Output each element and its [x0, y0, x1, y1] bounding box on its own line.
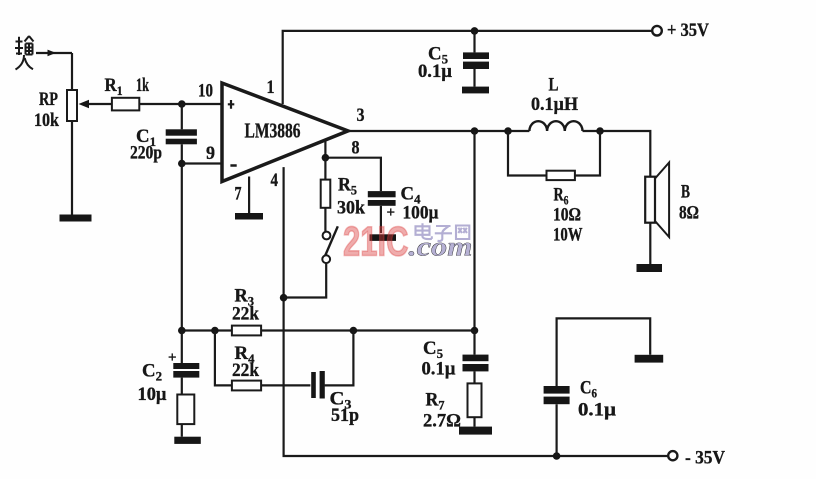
capacitor C6: [544, 386, 570, 394]
svg-text:C6: C6: [580, 378, 597, 401]
svg-text:22k: 22k: [232, 360, 259, 381]
resistor R1: [139, 103, 222, 105]
node junction input: [178, 100, 186, 108]
input label 输入: [15, 36, 34, 70]
svg-text:4: 4: [271, 170, 279, 191]
op-amp U1 LM3886: [222, 83, 348, 182]
svg-text:.com: .com: [409, 232, 473, 262]
node junction pin9: [178, 160, 186, 168]
svg-text:R7: R7: [426, 390, 445, 413]
watermark 电子网: [416, 223, 470, 241]
svg-text:21IC: 21IC: [343, 217, 409, 264]
wire output down to zobel/feedback: [473, 131, 475, 331]
svg-text:RP: RP: [39, 89, 58, 110]
resistor R5: [324, 158, 326, 180]
svg-text:LM3886: LM3886: [245, 119, 301, 143]
junction dot switch return: [280, 294, 288, 302]
svg-text:7: 7: [235, 184, 242, 205]
junction dot output/zobel: [471, 127, 479, 135]
ground (RP): [60, 215, 92, 222]
input arrow: [36, 52, 72, 54]
svg-text:R1: R1: [105, 75, 123, 98]
junction dot L right: [596, 127, 604, 135]
svg-text:- 35V: - 35V: [685, 448, 725, 469]
svg-text:9: 9: [206, 143, 215, 164]
svg-text:L: L: [549, 75, 559, 96]
capacitor C5 top: [473, 31, 475, 53]
ground (C2): [174, 437, 201, 444]
terminal +35V: [652, 26, 662, 36]
wire output pin3: [348, 131, 650, 179]
capacitor C3: [311, 372, 316, 398]
svg-text:10: 10: [198, 81, 213, 102]
svg-text:10W: 10W: [553, 225, 583, 246]
svg-text:220p: 220p: [130, 142, 162, 163]
svg-text:10Ω: 10Ω: [553, 205, 581, 226]
junction dot C3 branch: [350, 327, 358, 335]
resistor below C2: [177, 395, 194, 425]
svg-text:0.1µ: 0.1µ: [418, 61, 452, 82]
svg-text:1k: 1k: [136, 75, 149, 96]
wire pin9 node down to feedback line: [181, 164, 183, 331]
ground (C5 top): [462, 87, 489, 94]
svg-text:0.1µH: 0.1µH: [531, 94, 578, 115]
junction dot pin8: [322, 154, 330, 162]
junction dot feedback left: [178, 327, 186, 335]
wire input to RP: [71, 53, 73, 90]
svg-text:B: B: [681, 182, 690, 203]
resistor R6 parallel branch: [508, 131, 600, 176]
switch S1: [323, 232, 331, 240]
ground (speaker): [637, 264, 663, 272]
svg-text:R5: R5: [338, 175, 357, 198]
svg-text:+: +: [168, 350, 177, 366]
junction dot C6 bottom: [553, 452, 561, 460]
svg-text:10µ: 10µ: [138, 384, 167, 405]
svg-text:51p: 51p: [331, 405, 359, 426]
junction dot top rail: [471, 27, 479, 35]
speaker B: [645, 177, 655, 223]
wire C6 branch: [557, 318, 651, 456]
ground (C6 arm): [635, 355, 664, 363]
svg-text:2.7Ω: 2.7Ω: [423, 411, 461, 432]
junction dot feedback right: [471, 327, 479, 335]
wire pin4 to -35V rail: [284, 167, 669, 456]
svg-text:0.1µ: 0.1µ: [578, 400, 616, 421]
wire feedback line: [182, 329, 475, 331]
svg-text:10k: 10k: [34, 110, 59, 131]
svg-text:30k: 30k: [337, 198, 365, 219]
ground (C4): [370, 234, 397, 241]
capacitor C1: [181, 104, 183, 129]
svg-text:1: 1: [267, 77, 275, 98]
wire to pin 9: [182, 162, 222, 164]
capacitor C5 zobel: [473, 331, 475, 355]
svg-text:8Ω: 8Ω: [679, 203, 699, 224]
pin8 stub and wire: [325, 140, 381, 192]
svg-text:0.1µ: 0.1µ: [422, 359, 456, 380]
svg-text:3: 3: [357, 105, 365, 126]
wire pin1 to +35V rail: [283, 31, 653, 104]
capacitor C4: [368, 191, 396, 197]
capacitor C2: [181, 331, 183, 364]
svg-text:C2: C2: [142, 361, 162, 384]
svg-text:22k: 22k: [232, 304, 259, 325]
junction dot L left: [504, 127, 512, 135]
junction dot R4 branch: [211, 327, 219, 335]
wiper arrow of RP: [88, 103, 112, 105]
inductor L: [529, 121, 582, 131]
potentiometer RP: [67, 90, 77, 121]
resistor R4 + capacitor C3 branch: [215, 331, 354, 386]
svg-text:+ 35V: + 35V: [667, 20, 709, 41]
resistor R7: [468, 383, 482, 417]
ground (pin7): [235, 213, 263, 220]
svg-text:8: 8: [352, 138, 360, 159]
ground (R7): [459, 427, 492, 435]
terminal -35V: [668, 451, 677, 460]
resistor R3: [232, 326, 261, 336]
wire pin7: [248, 177, 250, 214]
